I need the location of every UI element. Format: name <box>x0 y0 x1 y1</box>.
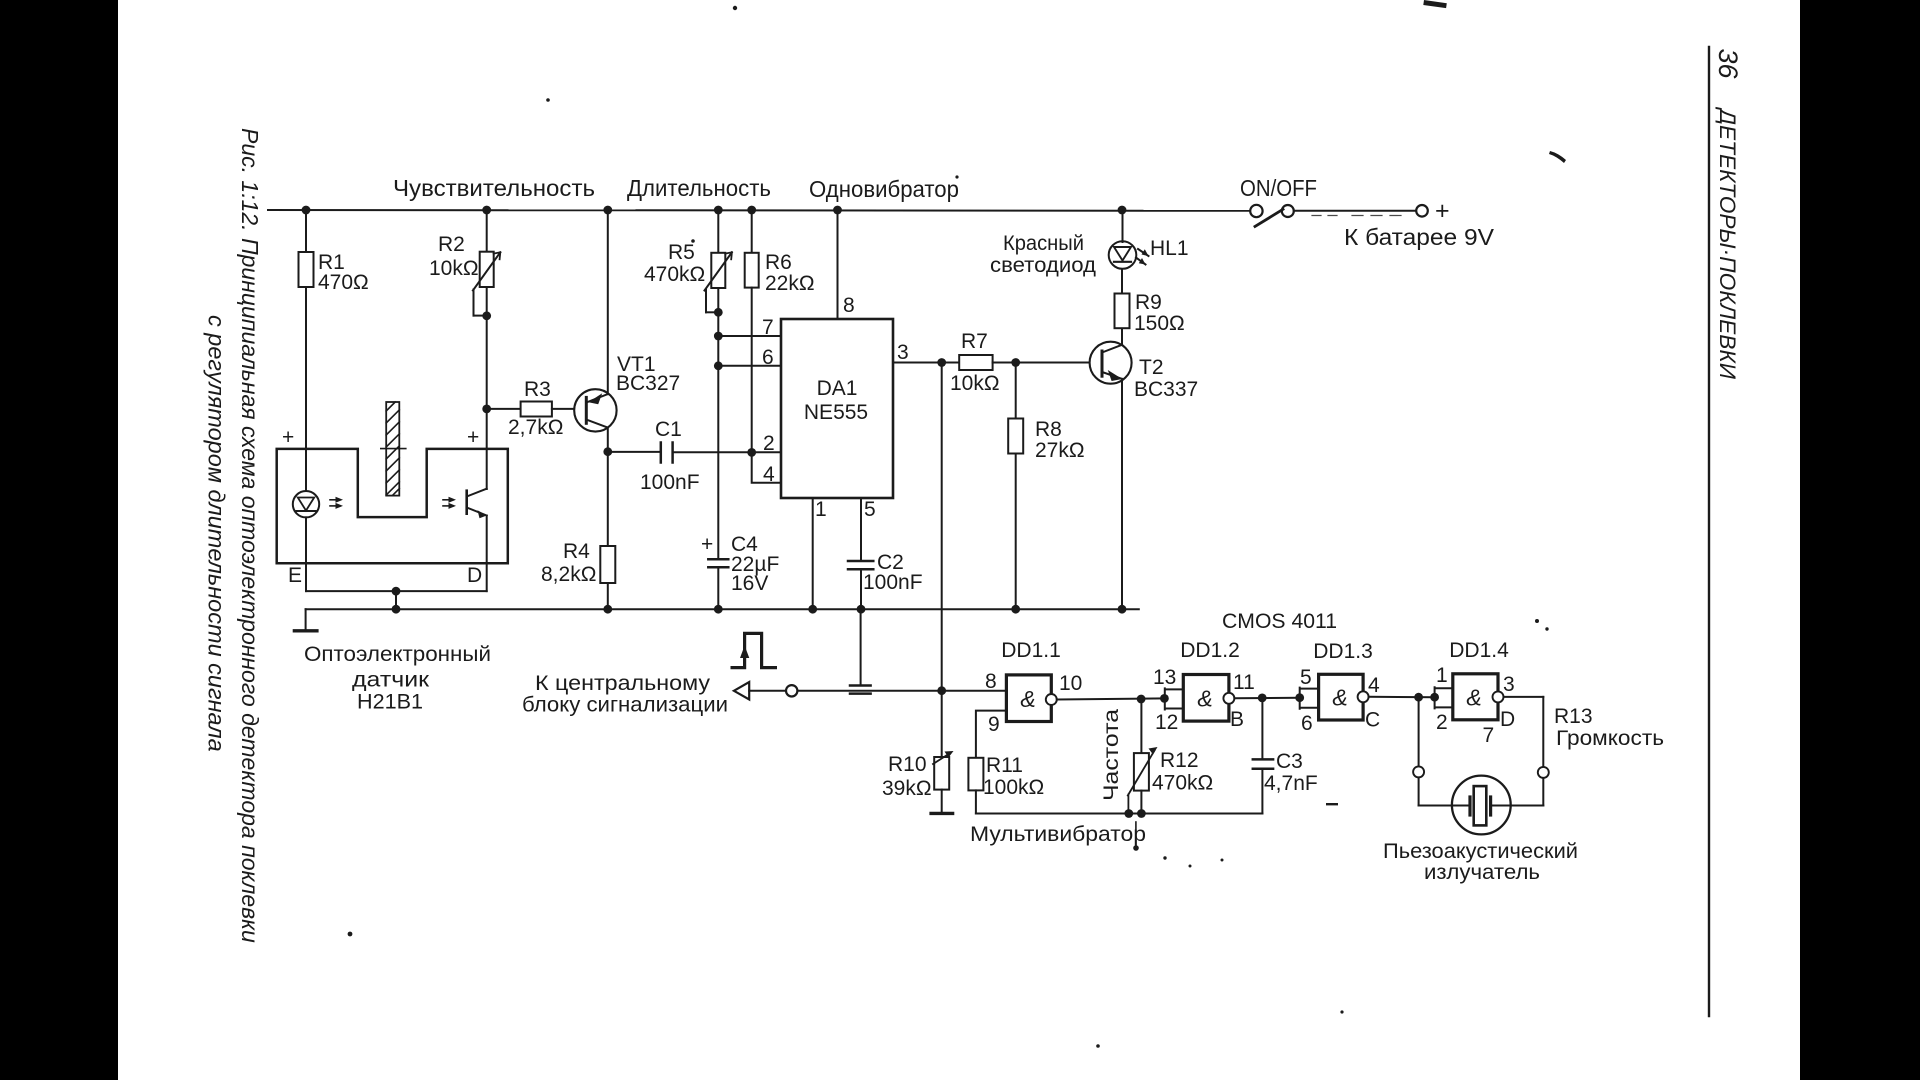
node R5 wiper <box>714 308 723 317</box>
svg-text:C3: C3 <box>1276 750 1303 773</box>
resistor R12 (trimmer) <box>1140 699 1142 753</box>
wire C4 to rail <box>717 567 719 609</box>
wire T2 emitter to rail <box>1121 379 1123 609</box>
svg-text:К батарее 9V: К батарее 9V <box>1344 224 1495 250</box>
svg-text:+: + <box>1435 197 1450 225</box>
svg-text:R7: R7 <box>961 330 988 353</box>
svg-text:1: 1 <box>815 498 827 521</box>
svg-text:3: 3 <box>1503 673 1515 696</box>
svg-text:39kΩ: 39kΩ <box>882 777 932 800</box>
wire R1 to LED anode <box>305 287 307 491</box>
wire C1 to pin 2 <box>674 451 781 453</box>
node pin6 <box>714 361 723 370</box>
wire R3 to VT1 base <box>552 408 585 410</box>
svg-text:10kΩ: 10kΩ <box>429 257 479 280</box>
input bracket pins 5/6 <box>1300 688 1319 709</box>
svg-text:&: & <box>1466 685 1481 711</box>
svg-text:C1: C1 <box>655 418 682 441</box>
resistor R11 <box>968 758 983 791</box>
svg-text:5: 5 <box>1300 666 1312 689</box>
piezo emitter <box>1452 776 1511 835</box>
svg-text:светодиод: светодиод <box>990 254 1096 277</box>
svg-text:H21B1: H21B1 <box>357 691 423 714</box>
svg-text:R2: R2 <box>438 233 465 256</box>
interrupter vane (hatched) <box>381 402 406 496</box>
svg-text:R3: R3 <box>524 378 551 401</box>
svg-text:4: 4 <box>763 463 775 486</box>
svg-text:470Ω: 470Ω <box>318 271 369 294</box>
capacitor C1 <box>660 443 663 463</box>
svg-text:6: 6 <box>1301 712 1313 735</box>
wire DD1.3 out to DD1.4 in <box>1369 696 1435 698</box>
input bracket pins 13/12 <box>1165 688 1184 709</box>
svg-text:100nF: 100nF <box>863 571 923 594</box>
svg-text:6: 6 <box>762 346 774 369</box>
wire R2 top <box>486 210 488 252</box>
volume pot R13 loop right <box>1504 696 1544 698</box>
node R8 top <box>1011 358 1020 367</box>
multivibrator bottom wire <box>976 813 1263 815</box>
pin 5 wire <box>860 498 862 561</box>
svg-text:16V: 16V <box>731 572 768 595</box>
node bus-pin8 <box>833 206 842 215</box>
svg-text:12: 12 <box>1155 711 1178 734</box>
svg-text:R8: R8 <box>1035 418 1062 441</box>
wire R3 left <box>487 408 521 410</box>
svg-text:5: 5 <box>864 498 876 521</box>
battery terminal <box>1416 205 1428 217</box>
svg-text:7: 7 <box>1483 724 1495 747</box>
node sensor to rail <box>392 587 401 596</box>
svg-text:2: 2 <box>1436 711 1448 734</box>
svg-text:470kΩ: 470kΩ <box>1152 772 1213 795</box>
svg-text:13: 13 <box>1153 666 1176 689</box>
resistor R3 <box>521 402 552 417</box>
svg-text:D: D <box>467 564 482 587</box>
resistor R6 <box>745 253 759 288</box>
resistor R2 (trimmer) <box>480 252 494 287</box>
scan speck marks <box>348 0 1566 1048</box>
optocoupler housing (sensor box) <box>277 449 508 563</box>
resistor R9 <box>1115 294 1130 329</box>
output arrow to central alarm unit <box>734 682 749 700</box>
wire R2 to phototransistor collector <box>486 287 488 489</box>
op-amp timer DA1 NE555 <box>781 319 893 498</box>
svg-text:8,2kΩ: 8,2kΩ <box>541 563 596 586</box>
wire pin 6 <box>718 365 781 367</box>
ground rail <box>306 608 1139 610</box>
left page margin black bar <box>0 0 118 1080</box>
svg-text:9: 9 <box>988 713 1000 736</box>
svg-text:Частота: Частота <box>1100 709 1123 801</box>
svg-text:Одновибратор: Одновибратор <box>809 176 959 202</box>
right page margin black bar <box>1800 0 1920 1080</box>
wire VT1 collector down <box>607 428 609 452</box>
svg-text:10: 10 <box>1059 672 1082 695</box>
node bus-VT1 <box>603 206 612 215</box>
node pin2/R6 junction <box>747 448 756 457</box>
svg-text:2: 2 <box>763 432 775 455</box>
node signal/vertical junction <box>937 686 946 695</box>
svg-text:C: C <box>1365 709 1380 732</box>
wire switch to battery terminal <box>1294 210 1417 212</box>
capacitor C4 <box>708 558 728 561</box>
phototransistor inside sensor <box>465 491 468 514</box>
svg-text:DD1.2: DD1.2 <box>1180 639 1240 662</box>
resistor R7 <box>959 355 992 370</box>
wire pin 4 <box>752 452 781 482</box>
svg-text:+: + <box>282 426 294 449</box>
svg-text:NE555: NE555 <box>804 401 868 424</box>
svg-text:Громкость: Громкость <box>1556 727 1664 750</box>
svg-text:R11: R11 <box>986 754 1023 777</box>
svg-text:HL1: HL1 <box>1150 237 1189 260</box>
pin 8 wire <box>837 210 839 319</box>
light arrows right pair <box>443 499 453 501</box>
LED HL1 <box>1109 241 1137 269</box>
wire pin 9 to R11 <box>976 711 1007 758</box>
svg-text:CMOS 4011: CMOS 4011 <box>1222 610 1337 633</box>
wire to R7 <box>942 362 960 364</box>
wire DD1.1 out to DD1.2 in <box>1057 698 1165 699</box>
svg-text:10kΩ: 10kΩ <box>950 372 1000 395</box>
svg-text:22kΩ: 22kΩ <box>765 272 815 295</box>
svg-text:11: 11 <box>1233 671 1255 694</box>
resistor R10 (trimmer) <box>934 757 949 790</box>
svg-text:8: 8 <box>985 670 997 693</box>
node pin7 <box>714 332 723 341</box>
svg-text:150Ω: 150Ω <box>1134 312 1185 335</box>
node pin3 junction <box>937 358 946 367</box>
svg-text:&: & <box>1332 685 1347 711</box>
node VT1 collector <box>603 447 612 456</box>
wire R7 to T2 base <box>993 362 1102 364</box>
svg-text:B: B <box>1230 708 1244 731</box>
svg-text:Красный: Красный <box>1003 232 1084 255</box>
pin 1 wire <box>812 498 814 609</box>
svg-text:100kΩ: 100kΩ <box>983 776 1044 799</box>
svg-text:излучатель: излучатель <box>1424 861 1540 884</box>
svg-text:&: & <box>1197 686 1212 712</box>
svg-text:R12: R12 <box>1160 749 1199 772</box>
switch ON/OFF <box>1250 205 1262 217</box>
svg-text:К центральному: К центральному <box>535 672 711 695</box>
node bus-HL1 <box>1118 206 1127 215</box>
svg-text:R9: R9 <box>1135 291 1162 314</box>
svg-text:ДЕТЕКТОРЫ·ПОКЛЕВКИ: ДЕТЕКТОРЫ·ПОКЛЕВКИ <box>1715 106 1740 379</box>
svg-text:27kΩ: 27kΩ <box>1035 439 1085 462</box>
resistor R4 <box>607 452 609 546</box>
node R3 junction <box>482 405 491 414</box>
svg-text:4: 4 <box>1368 674 1380 697</box>
svg-text:D: D <box>1500 708 1515 731</box>
wire pin3 junction down to R10 <box>941 363 943 691</box>
wire R6 top <box>751 210 753 253</box>
svg-text:+: + <box>467 426 479 449</box>
svg-text:T2: T2 <box>1139 356 1164 379</box>
wire T2 collector to R9 <box>1121 328 1123 345</box>
node bus-R5 <box>714 206 723 215</box>
svg-text:E: E <box>288 564 302 587</box>
svg-text:R10: R10 <box>888 753 927 776</box>
svg-text:100nF: 100nF <box>640 471 700 494</box>
svg-text:7: 7 <box>762 316 774 339</box>
output terminal circle <box>786 685 797 696</box>
svg-text:470kΩ: 470kΩ <box>644 263 705 286</box>
svg-text:Чувствительность: Чувствительность <box>393 175 595 201</box>
svg-text:Длительность: Длительность <box>627 175 771 201</box>
node bus-R2 <box>482 206 491 215</box>
node bus-R1 <box>302 206 311 215</box>
svg-text:ON/OFF: ON/OFF <box>1240 175 1317 201</box>
top supply bus <box>268 209 1250 212</box>
wire C2 to rail <box>860 569 862 609</box>
svg-text:с регулятором длительности сиг: с регулятором длительности сигнала <box>204 315 230 752</box>
svg-text:BC337: BC337 <box>1134 378 1198 401</box>
svg-text:3: 3 <box>897 341 909 364</box>
wire VT1 emitter to bus <box>607 210 609 394</box>
svg-text:DD1.1: DD1.1 <box>1001 639 1061 662</box>
svg-text:DD1.4: DD1.4 <box>1449 639 1509 662</box>
wire DD1.2 out to DD1.3 in <box>1234 697 1299 700</box>
wire phototransistor emitter down <box>486 516 488 592</box>
svg-text:4,7nF: 4,7nF <box>1264 772 1318 795</box>
svg-text:R13: R13 <box>1554 705 1593 728</box>
svg-text:R4: R4 <box>563 540 590 563</box>
wire terminal to DD1.1 input <box>798 690 1006 692</box>
light arrows left pair <box>330 499 340 501</box>
coupling capacitor below rail <box>860 609 862 684</box>
wire C1 left <box>608 451 660 453</box>
resistor R8 <box>1015 363 1017 419</box>
svg-text:DA1: DA1 <box>817 377 858 400</box>
wire E-D bottom <box>306 590 487 592</box>
resistor R1 <box>299 252 314 287</box>
svg-text:Оптоэлектронный: Оптоэлектронный <box>304 643 491 666</box>
svg-text:BC327: BC327 <box>616 372 680 395</box>
wire R5 top <box>717 210 719 253</box>
svg-text:&: & <box>1020 686 1035 712</box>
svg-text:Мультивибратор: Мультивибратор <box>970 823 1146 846</box>
wire pin 7 <box>718 335 781 337</box>
node R2 bottom <box>482 311 491 320</box>
volume pot R13 loop left <box>1418 697 1420 766</box>
svg-text:R6: R6 <box>765 251 792 274</box>
svg-text:R5: R5 <box>668 241 695 264</box>
svg-text:Пьезоакустический: Пьезоакустический <box>1383 840 1578 863</box>
wire R5 to C4 <box>717 288 719 559</box>
svg-text:8: 8 <box>843 294 855 317</box>
svg-text:2,7kΩ: 2,7kΩ <box>508 416 563 439</box>
svg-text:1: 1 <box>1436 664 1448 687</box>
svg-text:DD1.3: DD1.3 <box>1313 640 1373 663</box>
wire R1 top <box>305 210 307 252</box>
LED inside sensor <box>293 491 319 517</box>
pulse waveform symbol <box>732 633 775 667</box>
header rule <box>1708 47 1710 1016</box>
capacitor C3 <box>1261 698 1263 760</box>
input bracket pins 1/2 <box>1435 687 1453 708</box>
svg-text:+: + <box>701 533 713 556</box>
svg-text:36: 36 <box>1713 49 1743 80</box>
transistor VT1 <box>574 389 616 431</box>
resistor R5 (trimmer) <box>711 253 725 288</box>
wire R6 to pin2 <box>751 288 753 453</box>
svg-text:Рис. 1:12. Принципиальная схем: Рис. 1:12. Принципиальная схема оптоэлек… <box>237 128 263 943</box>
pin 3 wire <box>893 362 942 364</box>
svg-text:блоку сигнализации: блоку сигнализации <box>522 694 728 717</box>
ground symbol <box>305 609 307 629</box>
svg-text:датчик: датчик <box>352 669 430 692</box>
capacitor C2 <box>848 560 873 563</box>
node bus-R6 <box>747 206 756 215</box>
transistor T2 <box>1090 342 1132 384</box>
